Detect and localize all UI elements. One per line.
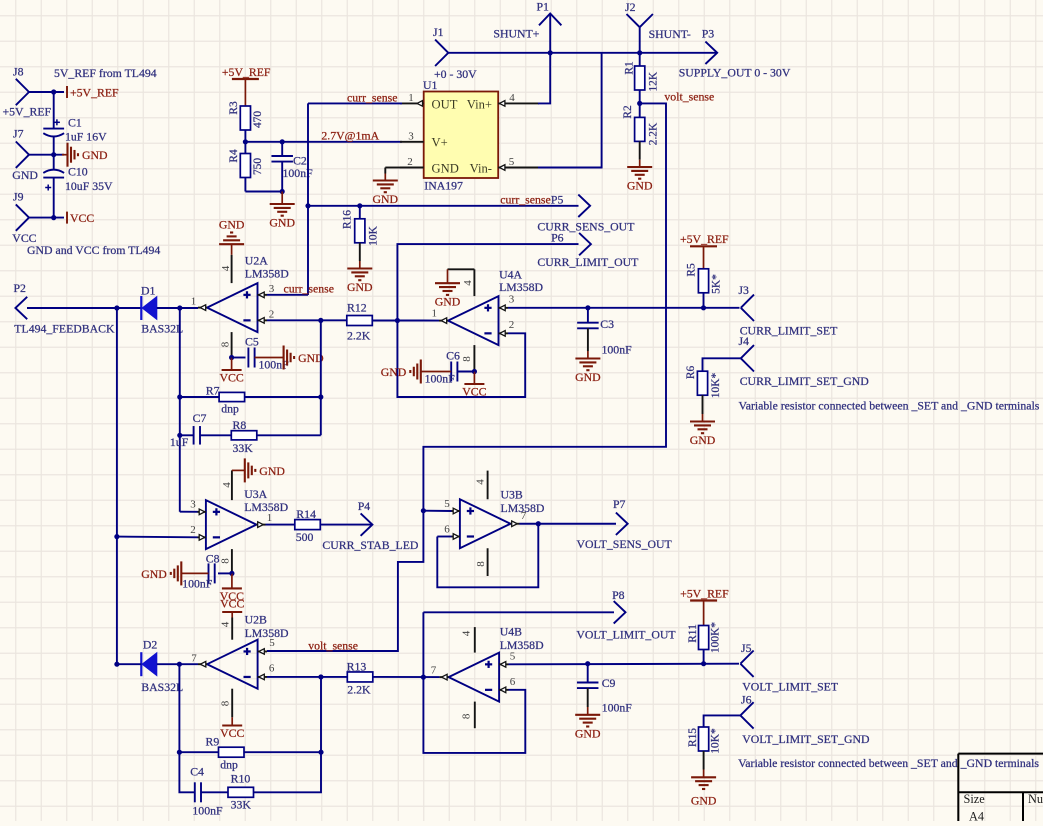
svg-text:BAS32L: BAS32L [141,680,183,694]
svg-text:R12: R12 [347,301,367,315]
svg-text:2: 2 [407,156,413,168]
svg-text:Vin+: Vin+ [467,97,492,111]
svg-text:GND: GND [690,433,716,447]
svg-text:6: 6 [510,676,516,688]
svg-text:C3: C3 [600,317,614,331]
svg-text:GND: GND [575,726,601,740]
svg-text:BAS32L: BAS32L [141,322,183,336]
svg-text:curr_sense: curr_sense [500,193,550,207]
svg-text:C7: C7 [193,411,207,425]
svg-text:8: 8 [220,700,232,706]
svg-text:CURR_LIMIT_SET_GND: CURR_LIMIT_SET_GND [740,374,870,388]
svg-text:C4: C4 [190,765,204,779]
svg-text:P5: P5 [551,193,564,207]
svg-text:12K: 12K [647,71,659,91]
svg-text:VCC: VCC [70,211,94,225]
svg-text:D1: D1 [141,284,156,298]
svg-text:Size: Size [964,792,986,806]
svg-text:100nF: 100nF [425,372,456,386]
svg-text:3: 3 [408,130,414,142]
svg-text:J6: J6 [741,692,752,706]
svg-text:VCC: VCC [220,726,244,740]
svg-text:dnp: dnp [221,402,239,416]
svg-text:R3: R3 [228,101,240,115]
svg-text:P6: P6 [551,231,564,245]
svg-text:J9: J9 [13,190,24,204]
svg-text:R7: R7 [206,384,220,398]
svg-text:6: 6 [269,663,275,675]
svg-text:GND: GND [435,295,461,309]
svg-text:dnp: dnp [220,758,238,772]
svg-text:GND: GND [269,216,295,230]
svg-text:750: 750 [252,158,264,175]
svg-text:VCC: VCC [219,371,243,385]
svg-text:7: 7 [191,653,197,665]
svg-text:GND: GND [381,365,407,379]
svg-text:CURR_LIMIT_OUT: CURR_LIMIT_OUT [537,255,639,269]
svg-text:R8: R8 [233,418,247,432]
svg-text:1: 1 [267,512,273,524]
svg-text:LM358D: LM358D [499,280,543,294]
svg-text:J8: J8 [13,65,24,79]
svg-text:CURR_STAB_LED: CURR_STAB_LED [322,538,419,552]
svg-text:8: 8 [475,561,487,567]
svg-text:5: 5 [509,156,515,168]
svg-text:8: 8 [220,558,232,564]
svg-text:1uF 16V: 1uF 16V [65,130,107,144]
svg-text:Variable resistor connected b: Variable resistor connected between _SET… [739,399,1040,413]
svg-text:+5V_REF: +5V_REF [70,86,119,100]
svg-text:GND: GND [82,148,108,162]
svg-text:100K*: 100K* [710,622,722,653]
svg-text:4: 4 [219,621,231,627]
svg-text:P2: P2 [14,281,27,295]
svg-text:3: 3 [509,294,515,306]
svg-text:curr_sense: curr_sense [347,91,397,105]
svg-text:+5V_REF: +5V_REF [680,232,729,246]
svg-text:5: 5 [444,498,450,510]
svg-text:P1: P1 [537,0,550,14]
svg-text:3: 3 [190,499,196,511]
svg-text:VOLT_LIMIT_SET_GND: VOLT_LIMIT_SET_GND [742,732,870,746]
svg-text:5: 5 [269,637,275,649]
svg-text:33K: 33K [231,797,252,811]
svg-text:10uF 35V: 10uF 35V [65,179,113,193]
svg-text:1uF: 1uF [170,435,189,449]
svg-text:8: 8 [220,341,232,347]
svg-text:INA197: INA197 [424,179,463,193]
svg-text:R15: R15 [687,728,699,747]
svg-text:U2B: U2B [245,613,267,627]
svg-text:+5V_REF: +5V_REF [222,65,271,79]
svg-text:Number: Number [1028,792,1043,806]
svg-text:SUPPLY_OUT 0 - 30V: SUPPLY_OUT 0 - 30V [679,66,791,80]
svg-text:100nF: 100nF [602,701,633,715]
svg-text:P8: P8 [612,588,625,602]
svg-text:33K: 33K [233,441,254,455]
svg-text:1: 1 [432,308,438,320]
svg-text:+5V_REF: +5V_REF [680,586,729,600]
svg-text:C9: C9 [602,676,616,690]
svg-text:U3B: U3B [501,488,523,502]
svg-text:GND: GND [575,370,601,384]
svg-text:4: 4 [475,479,487,485]
svg-text:OUT: OUT [432,97,458,111]
svg-text:5V_REF from TL494: 5V_REF from TL494 [54,66,157,80]
svg-text:2.2K: 2.2K [347,329,371,343]
svg-text:2.2K: 2.2K [647,122,659,145]
svg-text:4: 4 [462,280,474,286]
svg-text:Variable resistor connected b: Variable resistor connected between _SET… [738,756,1039,770]
svg-text:C6: C6 [446,349,460,363]
svg-text:D2: D2 [143,638,158,652]
svg-text:R10: R10 [231,772,251,786]
svg-text:J4: J4 [739,334,750,348]
svg-text:2: 2 [509,319,515,331]
svg-text:R1: R1 [624,61,636,75]
svg-text:R16: R16 [341,210,353,229]
svg-text:R4: R4 [228,149,240,163]
svg-text:2.2K: 2.2K [347,683,371,697]
svg-text:U2A: U2A [245,254,268,268]
svg-text:GND: GND [627,179,653,193]
svg-text:SHUNT+: SHUNT+ [493,27,539,41]
svg-text:J2: J2 [625,0,636,14]
svg-text:R14: R14 [296,507,316,521]
svg-text:4: 4 [509,92,515,104]
svg-text:7: 7 [431,665,437,677]
svg-text:P7: P7 [613,497,626,511]
svg-text:+5V_REF: +5V_REF [3,105,52,119]
svg-text:4: 4 [221,482,233,488]
svg-text:C10: C10 [68,165,88,179]
svg-text:470: 470 [252,111,264,128]
svg-text:GND: GND [432,161,459,175]
svg-text:2: 2 [269,309,275,321]
svg-text:SHUNT-: SHUNT- [649,27,691,41]
svg-text:V+: V+ [432,136,448,150]
svg-text:VCC: VCC [462,385,486,399]
svg-text:GND: GND [373,192,399,206]
svg-text:R5: R5 [686,263,698,277]
svg-text:GND and VCC from TL494: GND and VCC from TL494 [27,243,160,257]
svg-text:A4: A4 [969,810,984,822]
svg-text:GND: GND [347,280,373,294]
svg-text:5K*: 5K* [711,274,723,294]
svg-text:LM358D: LM358D [245,626,289,640]
svg-text:P4: P4 [358,499,371,513]
svg-text:GND: GND [691,794,717,808]
svg-text:volt_sense: volt_sense [308,639,358,653]
svg-text:C5: C5 [245,335,259,349]
svg-text:R2: R2 [622,105,634,119]
svg-text:10K*: 10K* [710,728,722,754]
svg-text:GND: GND [219,218,245,232]
svg-text:R9: R9 [206,735,220,749]
svg-text:1: 1 [191,296,197,308]
svg-text:U3A: U3A [244,487,267,501]
svg-text:CURR_LIMIT_SET: CURR_LIMIT_SET [740,324,838,338]
svg-text:LM358D: LM358D [500,638,544,652]
svg-text:TL494_FEEDBACK: TL494_FEEDBACK [14,322,115,336]
svg-text:4: 4 [460,630,472,636]
svg-text:4: 4 [220,265,232,271]
svg-text:VCC: VCC [220,597,244,611]
svg-text:2: 2 [190,524,196,536]
svg-text:VOLT_SENS_OUT: VOLT_SENS_OUT [577,537,673,551]
svg-text:R13: R13 [347,660,367,674]
svg-text:100nF: 100nF [602,343,633,357]
svg-text:volt_sense: volt_sense [664,90,714,104]
svg-text:LM358D: LM358D [245,267,289,281]
svg-text:+0 - 30V: +0 - 30V [434,67,477,81]
svg-text:VOLT_LIMIT_OUT: VOLT_LIMIT_OUT [576,628,676,642]
svg-text:5: 5 [510,650,516,662]
svg-text:P3: P3 [702,27,715,41]
svg-text:100nF: 100nF [192,804,223,818]
svg-text:U4B: U4B [500,625,522,639]
svg-text:7: 7 [521,510,527,522]
svg-text:GND: GND [141,567,167,581]
svg-text:100nF: 100nF [182,577,213,591]
svg-text:10K: 10K [367,225,379,245]
svg-text:C8: C8 [206,552,220,566]
svg-text:VOLT_LIMIT_SET: VOLT_LIMIT_SET [742,680,839,694]
svg-text:3: 3 [269,283,275,295]
svg-text:GND: GND [259,464,285,478]
svg-text:curr_sense: curr_sense [284,282,334,296]
svg-text:C1: C1 [68,116,82,130]
svg-text:J3: J3 [738,283,749,297]
svg-text:J7: J7 [13,127,24,141]
svg-text:10K*: 10K* [710,373,722,399]
svg-text:2.7V@1mA: 2.7V@1mA [321,129,379,143]
svg-text:Vin-: Vin- [470,161,492,175]
svg-text:6: 6 [444,524,450,536]
svg-text:R6: R6 [685,366,697,380]
svg-text:J1: J1 [433,25,444,39]
svg-text:GND: GND [12,168,38,182]
svg-text:R11: R11 [687,624,699,643]
svg-text:8: 8 [461,356,473,362]
svg-text:500: 500 [296,530,314,544]
svg-text:8: 8 [461,713,473,719]
svg-text:1: 1 [408,92,414,104]
